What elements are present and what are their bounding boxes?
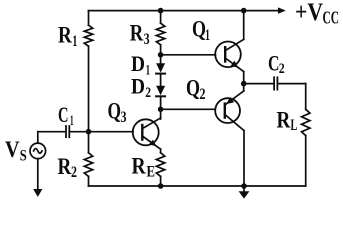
- svg-text:2: 2: [200, 86, 206, 103]
- svg-text:R: R: [58, 23, 72, 48]
- label RE: [132, 154, 156, 181]
- capacitor C2: [274, 77, 277, 89]
- junction top of Q1 collector riser: [241, 8, 247, 14]
- svg-text:1: 1: [72, 33, 77, 50]
- label Q3: [108, 99, 127, 127]
- label R3: [130, 21, 150, 48]
- label D1: [131, 51, 150, 79]
- label C2: [268, 51, 285, 77]
- wire Q2 base: [161, 108, 216, 110]
- svg-text:R: R: [277, 108, 291, 133]
- label VS: [5, 137, 27, 165]
- label R1: [58, 23, 78, 50]
- svg-text:R: R: [132, 154, 147, 179]
- wire bottom rail: [89, 185, 306, 187]
- svg-text:2: 2: [145, 85, 151, 101]
- wire VS to ground: [37, 159, 39, 191]
- wire C1 to Q3 base: [71, 131, 134, 133]
- svg-text:Q: Q: [186, 76, 200, 101]
- resistor R1: [84, 25, 92, 46]
- svg-text:V: V: [5, 137, 20, 162]
- svg-text:E: E: [147, 163, 156, 180]
- svg-text:2: 2: [71, 164, 77, 181]
- wire Q3 emitter to RE: [160, 149, 162, 153]
- wire output node to C2: [244, 83, 273, 85]
- diode D2: [156, 86, 165, 97]
- svg-text:C: C: [268, 51, 280, 76]
- svg-text:Q: Q: [108, 99, 122, 124]
- wire Q2 collector to ground rail: [243, 131, 245, 186]
- junction R3/D1 node: [158, 52, 164, 58]
- resistor RL: [302, 109, 310, 135]
- resistor R2: [84, 153, 92, 177]
- wire RE to ground rail: [160, 176, 162, 186]
- svg-text:CC: CC: [323, 7, 340, 27]
- svg-text:Q: Q: [192, 17, 206, 42]
- wire Q1 emitter to output node: [243, 72, 245, 91]
- junction input node at R1/R2: [86, 129, 92, 135]
- svg-text:2: 2: [279, 61, 285, 77]
- label D2: [131, 74, 151, 102]
- label Q2: [186, 76, 206, 104]
- svg-text:S: S: [20, 148, 27, 165]
- label Q1: [192, 17, 210, 45]
- svg-text:R: R: [58, 154, 72, 179]
- svg-text:1: 1: [205, 27, 210, 44]
- transistor Q2: [215, 91, 244, 131]
- svg-text:1: 1: [146, 63, 151, 79]
- label RL: [277, 108, 298, 135]
- svg-text:C: C: [58, 102, 69, 127]
- capacitor C1: [66, 126, 69, 137]
- junction RE at bottom rail: [158, 183, 164, 189]
- transistor Q1: [215, 39, 244, 71]
- node +VCC label: [295, 0, 339, 27]
- junction Q2 collector at bottom rail: [241, 183, 247, 189]
- source VS: [30, 143, 46, 159]
- resistor R3: [156, 23, 164, 45]
- svg-text:D: D: [131, 51, 145, 76]
- wire C2 to RL: [279, 83, 306, 85]
- junction output node: [241, 81, 247, 87]
- label R2: [58, 154, 78, 181]
- wire top supply rail: [89, 7, 286, 13]
- ground VS: [33, 189, 42, 197]
- junction D2/Q2-base/Q3-collector node: [158, 107, 164, 113]
- svg-text:1: 1: [70, 113, 74, 129]
- svg-text:R: R: [130, 21, 144, 46]
- wire left branch vertical (R1/R2 column): [88, 11, 90, 186]
- svg-text:L: L: [291, 117, 298, 134]
- wire right branch vertical (RL column): [305, 84, 307, 186]
- label C1: [58, 102, 74, 129]
- junction top of R3: [158, 8, 164, 14]
- wire input source to C1: [38, 132, 65, 144]
- wire Q1 base: [161, 54, 216, 56]
- transistor Q3: [133, 118, 161, 149]
- wire middle branch vertical (R3/D1/D2 column): [160, 11, 162, 119]
- svg-text:+V: +V: [295, 0, 323, 26]
- svg-text:3: 3: [144, 31, 150, 48]
- ground bottom rail: [239, 186, 250, 199]
- wire Q1 collector riser: [243, 11, 245, 40]
- svg-text:3: 3: [121, 109, 127, 126]
- resistor RE: [156, 153, 164, 177]
- diode D1: [156, 63, 165, 73]
- svg-text:D: D: [131, 74, 145, 99]
